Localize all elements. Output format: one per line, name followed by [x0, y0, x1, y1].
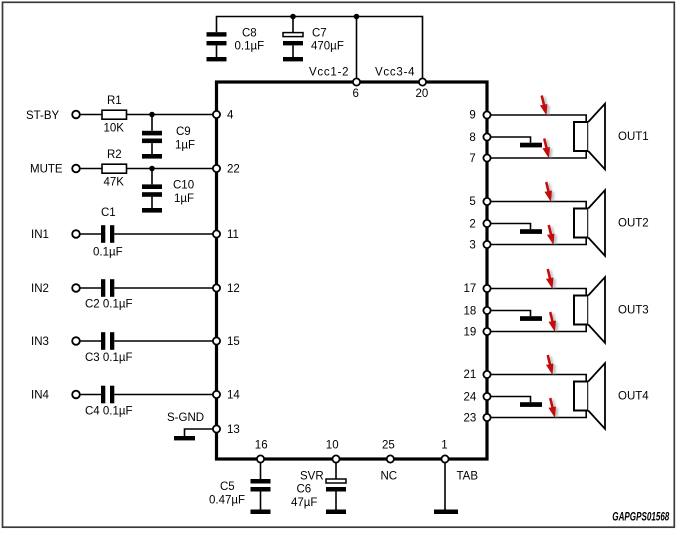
svg-text:0.1µF: 0.1µF	[235, 41, 265, 53]
pin 12	[213, 284, 220, 291]
arrow OUT3 top	[546, 269, 556, 291]
pin 10 SVR	[332, 455, 339, 462]
svg-text:16: 16	[255, 440, 268, 452]
pin 2	[483, 220, 490, 227]
svg-text:10K: 10K	[104, 123, 125, 135]
svg-text:IN2: IN2	[31, 283, 49, 295]
terminal IN3	[72, 337, 80, 345]
capacitor C10	[142, 169, 162, 209]
wire ST-BY to R1	[80, 114, 102, 116]
wire IN2 to C2	[80, 287, 101, 289]
svg-text:1µF: 1µF	[174, 193, 194, 205]
IC body U1	[217, 82, 488, 459]
ground C10	[142, 208, 162, 213]
terminal IN1	[72, 230, 80, 238]
svg-text:7: 7	[469, 153, 475, 165]
terminal MUTE	[72, 165, 80, 173]
junction at pin6 tap	[354, 14, 360, 20]
pin 1 TAB	[441, 455, 448, 462]
svg-text:12: 12	[227, 283, 240, 295]
pin 9	[483, 111, 490, 118]
pin 4	[213, 111, 220, 118]
wire R2 to pin22	[127, 168, 213, 170]
wire pin2 to ground	[491, 224, 531, 230]
svg-text:OUT2: OUT2	[618, 218, 649, 230]
pin 23	[483, 414, 490, 421]
ground S-GND	[174, 436, 195, 440]
svg-text:47K: 47K	[104, 177, 125, 189]
svg-text:OUT3: OUT3	[618, 305, 649, 317]
wire pin23 to speaker	[491, 411, 587, 418]
svg-text:NC: NC	[381, 471, 398, 483]
terminal IN4	[72, 391, 80, 399]
pin 15	[213, 337, 220, 344]
svg-text:R1: R1	[107, 95, 122, 107]
capacitor C4	[101, 386, 114, 404]
svg-text:14: 14	[227, 390, 240, 402]
pin 11	[213, 230, 220, 237]
pin 21	[483, 371, 490, 378]
svg-text:0.47µF: 0.47µF	[209, 495, 245, 507]
svg-text:9: 9	[469, 109, 475, 121]
svg-text:3: 3	[469, 240, 475, 252]
wire IN4 to C4	[80, 394, 101, 396]
OUT2 group	[469, 182, 648, 256]
wire pin3 to speaker	[491, 238, 587, 245]
junction at C7 tap	[290, 14, 296, 20]
capacitor C7 (electrolytic)	[283, 19, 303, 57]
svg-text:C9: C9	[176, 126, 191, 138]
arrow OUT1 top	[540, 95, 550, 117]
resistor R1	[102, 110, 127, 119]
svg-text:MUTE: MUTE	[30, 164, 63, 176]
wire C3 to pin15	[114, 340, 212, 342]
svg-text:18: 18	[464, 306, 477, 318]
wire pin24 to ground	[491, 397, 531, 403]
svg-text:C6: C6	[297, 484, 312, 496]
wire R1 to pin4	[127, 114, 213, 116]
wire pin5 to speaker	[491, 202, 587, 209]
arrow OUT1 bottom	[542, 138, 552, 160]
ground OUT3	[520, 316, 542, 321]
arrow OUT2 top	[544, 182, 554, 204]
svg-text:21: 21	[464, 369, 477, 381]
svg-text:R2: R2	[107, 149, 122, 161]
pin 20	[419, 78, 426, 85]
svg-text:C3 0.1µF: C3 0.1µF	[85, 352, 133, 364]
pin 16	[257, 455, 264, 462]
junction at C9	[149, 112, 155, 118]
svg-text:11: 11	[227, 229, 239, 241]
arrow OUT2 bottom	[547, 225, 557, 247]
pin 22	[213, 165, 220, 172]
pin 13	[213, 425, 220, 432]
capacitor C2	[101, 279, 114, 297]
OUT3 group	[464, 269, 649, 343]
ground C8	[207, 57, 227, 61]
ground C7	[283, 57, 303, 61]
svg-text:OUT1: OUT1	[618, 131, 649, 143]
svg-text:C2 0.1µF: C2 0.1µF	[85, 299, 133, 311]
svg-text:20: 20	[416, 88, 429, 100]
svg-text:ST-BY: ST-BY	[26, 110, 60, 122]
pin 19	[483, 328, 490, 335]
ground C9	[142, 154, 162, 159]
capacitor C3	[101, 332, 114, 350]
pin 6	[353, 78, 360, 85]
ground C6	[326, 510, 346, 515]
svg-text:10: 10	[326, 440, 339, 452]
svg-text:2: 2	[469, 219, 475, 231]
svg-text:C10: C10	[173, 180, 194, 192]
svg-text:GAPGPS01568: GAPGPS01568	[612, 512, 669, 524]
terminal ST-BY	[72, 111, 80, 119]
svg-text:Vcc3-4: Vcc3-4	[375, 67, 415, 79]
svg-text:C7: C7	[312, 28, 327, 40]
wire C1 to pin11	[114, 233, 212, 235]
svg-text:C8: C8	[242, 28, 257, 40]
capacitor C9	[142, 115, 162, 155]
pin 14	[213, 391, 220, 398]
pin 24	[483, 393, 490, 400]
svg-text:OUT4: OUT4	[618, 391, 649, 403]
wire C4 to pin14	[114, 394, 212, 396]
svg-text:22: 22	[227, 164, 240, 176]
ground OUT1	[520, 143, 542, 148]
svg-text:23: 23	[464, 413, 477, 425]
pin 8	[483, 133, 490, 140]
speaker LS4	[574, 363, 605, 429]
svg-text:19: 19	[464, 327, 477, 339]
pin 18	[483, 307, 490, 314]
OUT1 group	[469, 95, 648, 169]
terminal IN2	[72, 284, 80, 292]
wire pin18 to ground	[491, 311, 531, 317]
capacitor C6 (electrolytic)	[326, 463, 346, 510]
svg-text:6: 6	[353, 88, 359, 100]
svg-text:IN3: IN3	[31, 336, 49, 348]
capacitor C8	[207, 32, 227, 57]
capacitor C5	[251, 463, 271, 510]
resistor R2	[102, 164, 127, 173]
arrow OUT4 bottom	[548, 398, 558, 420]
svg-text:470µF: 470µF	[311, 41, 344, 53]
arrow OUT3 bottom	[548, 312, 558, 334]
wire pin7 to speaker	[491, 151, 587, 158]
pin 5	[483, 198, 490, 205]
svg-text:1µF: 1µF	[175, 140, 195, 152]
svg-text:Vcc1-2: Vcc1-2	[309, 67, 349, 79]
svg-text:S-GND: S-GND	[167, 412, 204, 424]
wire pin13 to ground	[185, 429, 213, 436]
wire pin9 to speaker	[491, 115, 587, 122]
wire pin8 to ground	[491, 137, 531, 143]
svg-text:0.1µF: 0.1µF	[93, 247, 123, 259]
svg-text:IN1: IN1	[31, 229, 49, 241]
svg-text:17: 17	[464, 283, 477, 295]
ground OUT2	[520, 229, 542, 234]
svg-text:25: 25	[382, 440, 395, 452]
wire MUTE to R2	[80, 168, 102, 170]
svg-text:C5: C5	[220, 481, 235, 493]
wire C2 to pin12	[114, 287, 212, 289]
ground C5	[251, 510, 271, 515]
speaker LS1	[574, 104, 605, 170]
svg-text:5: 5	[469, 196, 475, 208]
pin 7	[483, 154, 490, 161]
svg-text:24: 24	[464, 392, 477, 404]
svg-text:15: 15	[227, 336, 240, 348]
wire IN1 to C1	[80, 233, 101, 235]
speaker LS3	[574, 277, 605, 343]
wire Vcc rail	[217, 17, 423, 79]
svg-text:8: 8	[469, 132, 475, 144]
arrow OUT4 top	[546, 355, 556, 377]
ground TAB	[434, 510, 458, 515]
svg-text:47µF: 47µF	[291, 497, 317, 509]
wire pin6 to rail	[356, 17, 358, 79]
wire IN3 to C3	[80, 340, 101, 342]
svg-text:IN4: IN4	[31, 390, 50, 402]
svg-text:1: 1	[441, 440, 447, 452]
svg-text:TAB: TAB	[457, 471, 479, 483]
junction at C10	[149, 166, 155, 172]
wire pin19 to speaker	[491, 325, 587, 332]
capacitor C1	[101, 225, 114, 243]
svg-text:4: 4	[227, 110, 234, 122]
pin 17	[483, 285, 490, 292]
wire pin17 to speaker	[491, 289, 587, 296]
svg-text:13: 13	[227, 424, 240, 436]
pin 25 NC	[387, 455, 394, 462]
speaker LS2	[574, 190, 605, 256]
OUT4 group	[464, 355, 650, 429]
svg-text:SVR: SVR	[300, 471, 324, 483]
svg-text:C4 0.1µF: C4 0.1µF	[85, 406, 133, 418]
pin 3	[483, 241, 490, 248]
wire pin21 to speaker	[491, 375, 587, 382]
ground OUT4	[520, 402, 542, 407]
wire pin1 to ground	[444, 463, 446, 510]
svg-text:C1: C1	[101, 207, 116, 219]
